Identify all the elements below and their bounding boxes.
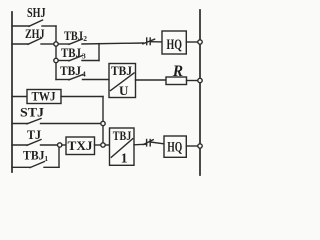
- svg-text:U: U: [119, 83, 129, 98]
- contact TBJ2: [58, 43, 69, 45]
- wire R to right bus: [187, 80, 198, 82]
- link XB2 (connecting strip before bottom HQ): [146, 140, 148, 146]
- contact ZHJ: [12, 43, 28, 45]
- relay coil TXJ: [66, 137, 95, 155]
- wire node D to TBJ/1 box: [105, 144, 109, 146]
- svg-text:TJ: TJ: [27, 127, 41, 142]
- relay element TBJ/1 box: [110, 128, 135, 165]
- svg-text:R: R: [172, 63, 183, 80]
- wire node E to TXJ: [62, 144, 66, 146]
- svg-text:TBJ: TBJ: [111, 63, 132, 78]
- node D junction circle: [101, 143, 105, 147]
- svg-text:TBJ: TBJ: [113, 129, 132, 143]
- svg-text:STJ: STJ: [20, 105, 45, 120]
- wire SHJ corner down to node A: [55, 26, 57, 42]
- contact TBJ3: [58, 60, 69, 62]
- svg-text:TXJ: TXJ: [68, 138, 94, 153]
- relay TWJ box: [12, 96, 27, 98]
- wire junction down to TBJ3 row: [98, 44, 100, 61]
- left bus (+): [11, 12, 13, 172]
- wire HQ to right bus: [186, 41, 198, 43]
- wire node B down to TBJ4 branch: [55, 63, 57, 80]
- svg-text:1: 1: [121, 151, 128, 166]
- terminal circle middle right: [198, 78, 202, 82]
- node E terminal circle before TXJ: [58, 143, 62, 147]
- svg-text:TBJ: TBJ: [64, 29, 83, 43]
- wire bottom HQ to right bus: [186, 145, 198, 147]
- svg-text:2: 2: [83, 34, 87, 43]
- contact TJ: [12, 144, 27, 146]
- wire node C down to node D: [102, 126, 104, 143]
- link XB1 (connecting strip before HQ): [146, 38, 148, 45]
- wire TXJ to node D: [95, 144, 101, 146]
- svg-text:4: 4: [82, 70, 86, 79]
- svg-text:ZHJ: ZHJ: [25, 26, 45, 41]
- node C junction circle: [101, 121, 105, 125]
- relay element TBJ/U box: [109, 64, 136, 98]
- svg-text:TWJ: TWJ: [32, 90, 56, 104]
- wire link to bottom HQ: [150, 142, 164, 144]
- wire node A down to node B: [55, 46, 57, 58]
- wire vertical down to node C: [102, 97, 104, 122]
- svg-text:3: 3: [82, 52, 86, 61]
- contact TBJ4: [56, 79, 69, 81]
- right bus (-): [199, 10, 201, 175]
- wire TBJ2 row to HQ link: [82, 43, 144, 44]
- relay coil HQ (top): [162, 31, 186, 54]
- wire TBJ/1 to link XB2: [134, 143, 147, 146]
- svg-text:1: 1: [44, 154, 48, 163]
- wire TWJ to vertical: [61, 96, 103, 98]
- contact SHJ: [12, 25, 29, 27]
- node A junction circle: [54, 42, 58, 46]
- contact STJ: [12, 123, 27, 125]
- relay coil HQ (bottom): [164, 136, 186, 157]
- svg-text:HQ: HQ: [167, 139, 182, 155]
- node B junction circle: [54, 58, 58, 62]
- wire TBJ/U to resistor R: [136, 79, 167, 81]
- contact TBJ1: [12, 166, 30, 168]
- svg-text:TBJ: TBJ: [23, 148, 45, 162]
- svg-text:TBJ: TBJ: [60, 64, 81, 78]
- resistor R: [166, 77, 187, 85]
- terminal circle top right: [198, 40, 202, 44]
- terminal circle bottom right: [198, 144, 202, 148]
- wire link to HQ box: [150, 41, 162, 43]
- svg-text:TBJ: TBJ: [61, 46, 81, 60]
- wire TBJ1 up to node E: [58, 147, 60, 167]
- svg-text:SHJ: SHJ: [27, 5, 46, 20]
- svg-text:HQ: HQ: [167, 37, 183, 53]
